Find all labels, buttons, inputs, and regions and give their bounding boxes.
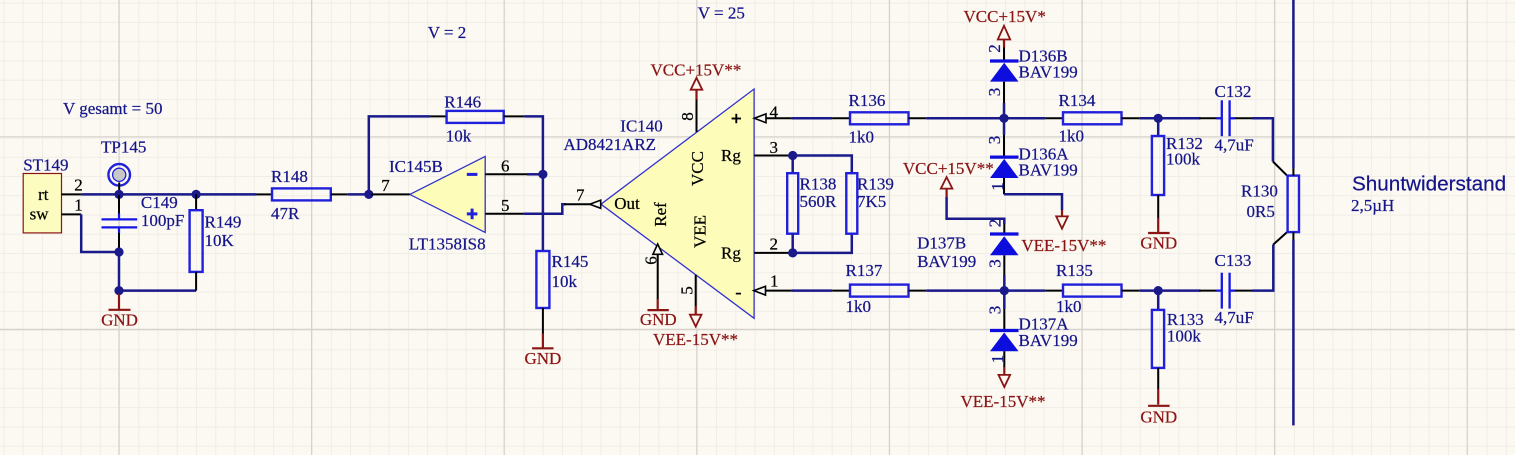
resistor R146 xyxy=(430,92,524,145)
svg-text:7K5: 7K5 xyxy=(857,192,886,211)
svg-text:V = 25: V = 25 xyxy=(698,4,745,23)
svg-text:8: 8 xyxy=(678,112,697,121)
ground GND below R132 xyxy=(1140,218,1177,252)
svg-text:100pF: 100pF xyxy=(141,211,184,230)
svg-text:rt: rt xyxy=(38,185,49,204)
svg-text:C133: C133 xyxy=(1215,251,1252,270)
op-amp IC145B xyxy=(389,156,486,253)
svg-text:4,7uF: 4,7uF xyxy=(1215,135,1254,154)
svg-text:100k: 100k xyxy=(1166,149,1201,168)
svg-text:2,5µH: 2,5µH xyxy=(1351,196,1394,215)
svg-text:5: 5 xyxy=(677,286,696,295)
svg-text:1k0: 1k0 xyxy=(849,127,875,146)
resistor R135 xyxy=(1045,261,1139,316)
wire from pin 1 down and right xyxy=(81,214,119,252)
svg-text:V = 2: V = 2 xyxy=(428,23,467,42)
ground GND at Ref pin xyxy=(640,299,677,329)
svg-text:Ref: Ref xyxy=(651,202,670,227)
svg-text:3: 3 xyxy=(770,138,779,157)
svg-text:R149: R149 xyxy=(205,213,242,232)
svg-text:GND: GND xyxy=(640,310,677,329)
svg-text:2: 2 xyxy=(985,44,1004,53)
svg-text:TP145: TP145 xyxy=(101,137,146,156)
wire R135 to C133 xyxy=(1139,289,1200,292)
power VCC+15V** at D137B xyxy=(903,159,994,197)
wire C133 to R130 bottom lead xyxy=(1252,245,1273,291)
resistor R132 xyxy=(1152,118,1203,218)
svg-text:R146: R146 xyxy=(444,92,481,111)
svg-text:C149: C149 xyxy=(141,193,178,212)
wire pin1 to R137 xyxy=(791,289,832,292)
svg-text:GND: GND xyxy=(1140,407,1177,426)
junction R132 node xyxy=(1154,114,1163,123)
junction at pin 2 node xyxy=(788,248,797,257)
svg-text:BAV199: BAV199 xyxy=(917,252,976,271)
resistor R149 xyxy=(190,194,242,290)
pin 3 Rg of IC140 xyxy=(754,138,792,157)
wire pin3 node to R139 top xyxy=(793,156,852,174)
wire input net horizontal xyxy=(81,193,256,196)
wire R136 to R134 xyxy=(926,117,1045,120)
svg-text:R130: R130 xyxy=(1241,182,1278,201)
svg-text:V gesamt = 50: V gesamt = 50 xyxy=(63,99,162,118)
junction R133 node xyxy=(1154,286,1163,295)
wire R146 right down to pin 6 node xyxy=(524,116,543,174)
svg-text:VCC+15V**: VCC+15V** xyxy=(903,159,994,178)
svg-text:AD8421ARZ: AD8421ARZ xyxy=(564,135,657,154)
svg-text:1: 1 xyxy=(74,196,83,215)
ground GND below R145 xyxy=(524,334,561,369)
resistor R133 xyxy=(1152,291,1204,389)
svg-text:BAV199: BAV199 xyxy=(1019,63,1078,82)
power VCC+15V* top xyxy=(964,7,1046,48)
diode D136B xyxy=(985,44,1078,103)
svg-text:R139: R139 xyxy=(857,175,894,194)
wire feedback up from output node xyxy=(369,116,431,194)
wire C149 bottom to ground junction xyxy=(118,252,121,291)
wire R148 to opamp output node xyxy=(348,193,369,196)
resistor R134 xyxy=(1045,91,1139,146)
resistor R148 xyxy=(257,167,348,223)
power VEE-15V** at D136A xyxy=(1021,210,1106,255)
svg-text:R135: R135 xyxy=(1056,261,1093,280)
junction lower diode node xyxy=(1000,286,1009,295)
junction below C149 xyxy=(114,247,123,256)
svg-text:4: 4 xyxy=(770,102,779,121)
junction at pin 6 node xyxy=(538,170,547,179)
resistor R138 xyxy=(787,156,837,253)
svg-text:R134: R134 xyxy=(1059,91,1096,110)
capacitor C133 xyxy=(1200,251,1254,327)
svg-text:Rg: Rg xyxy=(721,146,741,165)
svg-text:Shuntwiderstand: Shuntwiderstand xyxy=(1352,173,1506,196)
wire D136B to junction xyxy=(1003,103,1006,118)
svg-text:1: 1 xyxy=(988,355,1007,364)
wire pin5 to IC140 out with jog xyxy=(524,204,566,214)
ground GND below R133 xyxy=(1140,389,1177,426)
pin 2 of ST149 xyxy=(62,176,83,195)
svg-text:sw: sw xyxy=(30,205,50,224)
pin 6 of IC145B xyxy=(485,157,527,176)
resistor R137 xyxy=(832,261,926,316)
pin 2 Rg of IC140 xyxy=(754,234,792,253)
capacitor C132 xyxy=(1200,82,1254,154)
svg-text:1k0: 1k0 xyxy=(1056,297,1082,316)
resistor R136 xyxy=(832,91,926,147)
ground GND left xyxy=(101,294,138,329)
pin 1 minus input of IC140 xyxy=(754,272,792,296)
svg-text:IC145B: IC145B xyxy=(389,157,443,176)
svg-text:5: 5 xyxy=(501,196,510,215)
diode D137A xyxy=(986,291,1078,367)
svg-text:D137B: D137B xyxy=(917,233,966,252)
svg-text:VEE: VEE xyxy=(691,215,710,248)
node A junction at TP145 xyxy=(114,190,123,199)
svg-text:2: 2 xyxy=(986,219,1005,228)
svg-text:IC140: IC140 xyxy=(620,117,663,136)
pin 8 VCC of IC140 xyxy=(678,99,697,132)
svg-text:2: 2 xyxy=(74,176,83,195)
svg-text:Rg: Rg xyxy=(721,243,741,262)
svg-text:Out: Out xyxy=(614,194,640,213)
power VEE-15V** bottom xyxy=(961,367,1046,411)
svg-text:VCC+15V**: VCC+15V** xyxy=(651,60,742,79)
wire VCC arrow to D137B xyxy=(947,197,1005,224)
svg-text:3: 3 xyxy=(985,136,1004,145)
svg-text:R138: R138 xyxy=(800,175,837,194)
svg-text:GND: GND xyxy=(101,310,138,329)
wire pin4 to R136 xyxy=(791,117,832,120)
svg-text:560R: 560R xyxy=(800,192,838,211)
svg-text:7: 7 xyxy=(381,176,390,195)
wire pin6 to junction xyxy=(527,173,543,176)
instrumentation amplifier IC140 xyxy=(564,89,755,318)
diode D136A xyxy=(985,118,1078,194)
svg-text:GND: GND xyxy=(524,349,561,368)
wire R134 to C132 xyxy=(1139,117,1200,120)
svg-text:3: 3 xyxy=(986,259,1005,268)
svg-text:1k0: 1k0 xyxy=(846,297,872,316)
svg-text:3: 3 xyxy=(986,306,1005,315)
wire shunt bus top xyxy=(1292,0,1295,169)
power VEE-15V** at pin 5 xyxy=(653,306,738,349)
svg-text:R145: R145 xyxy=(552,252,589,271)
pin 6 Ref of IC140 xyxy=(642,244,663,300)
svg-text:0R5: 0R5 xyxy=(1247,202,1275,221)
pin 5 of IC145B xyxy=(485,196,523,215)
svg-text:1: 1 xyxy=(988,182,1007,191)
svg-text:4,7uF: 4,7uF xyxy=(1215,308,1254,327)
pin 4 plus input of IC140 xyxy=(754,102,791,122)
wire shunt bus bottom xyxy=(1292,232,1294,239)
junction at R149 top xyxy=(192,190,201,199)
connector ST149 xyxy=(23,155,68,233)
junction at pin 3 node xyxy=(788,151,797,160)
svg-text:LT1358IS8: LT1358IS8 xyxy=(409,235,486,254)
wire R137 to R135 xyxy=(926,289,1045,292)
svg-text:100k: 100k xyxy=(1167,326,1202,345)
svg-text:1: 1 xyxy=(770,272,779,291)
svg-text:GND: GND xyxy=(1140,233,1177,252)
junction at IC145B output node xyxy=(364,190,373,199)
pin 7 Out of IC140 xyxy=(565,185,601,208)
svg-text:1k0: 1k0 xyxy=(1059,127,1085,146)
pin 1 of ST149 xyxy=(62,196,83,215)
svg-text:2: 2 xyxy=(770,234,779,253)
wire pin2 node to R139 bottom xyxy=(793,234,852,253)
pin 7 output of IC145B xyxy=(371,176,410,195)
svg-text:C132: C132 xyxy=(1215,82,1252,101)
svg-text:R137: R137 xyxy=(846,261,883,280)
capacitor C149 xyxy=(102,193,185,251)
svg-text:10k: 10k xyxy=(446,127,472,146)
diode D137B xyxy=(917,219,1018,275)
svg-text:ST149: ST149 xyxy=(23,155,68,174)
shunt resistor R130 xyxy=(1241,162,1299,245)
resistor R145 xyxy=(536,251,588,334)
wire ground node to R149 bottom xyxy=(119,289,196,292)
svg-text:3: 3 xyxy=(985,88,1004,97)
svg-text:6: 6 xyxy=(642,256,661,265)
svg-text:BAV199: BAV199 xyxy=(1019,331,1078,350)
svg-text:VCC: VCC xyxy=(688,151,707,186)
svg-text:10K: 10K xyxy=(205,231,235,250)
wire D137B to junction xyxy=(1003,275,1006,291)
pin 5 VEE of IC140 xyxy=(677,275,696,307)
svg-text:10k: 10k xyxy=(552,272,578,291)
svg-text:6: 6 xyxy=(501,157,510,176)
wire C132 to R130 top lead xyxy=(1252,118,1273,161)
svg-text:VEE-15V**: VEE-15V** xyxy=(1021,236,1106,255)
testpoint TP145 xyxy=(101,137,146,193)
junction at GND node xyxy=(114,286,123,295)
svg-text:R148: R148 xyxy=(271,167,308,186)
junction upper diode node xyxy=(999,114,1008,123)
svg-text:VEE-15V**: VEE-15V** xyxy=(961,392,1046,411)
svg-text:VCC+15V*: VCC+15V* xyxy=(964,7,1046,26)
svg-text:47R: 47R xyxy=(271,204,300,223)
svg-text:VEE-15V**: VEE-15V** xyxy=(653,330,738,349)
power VCC+15V** at pin 8 xyxy=(651,60,742,99)
wire D136A to VEE arrow xyxy=(1004,194,1062,210)
svg-text:BAV199: BAV199 xyxy=(1019,161,1078,180)
svg-text:7: 7 xyxy=(576,185,585,204)
svg-text:R136: R136 xyxy=(849,91,886,110)
resistor R139 xyxy=(846,173,894,234)
wire pin6 node down to R145 xyxy=(542,174,545,251)
